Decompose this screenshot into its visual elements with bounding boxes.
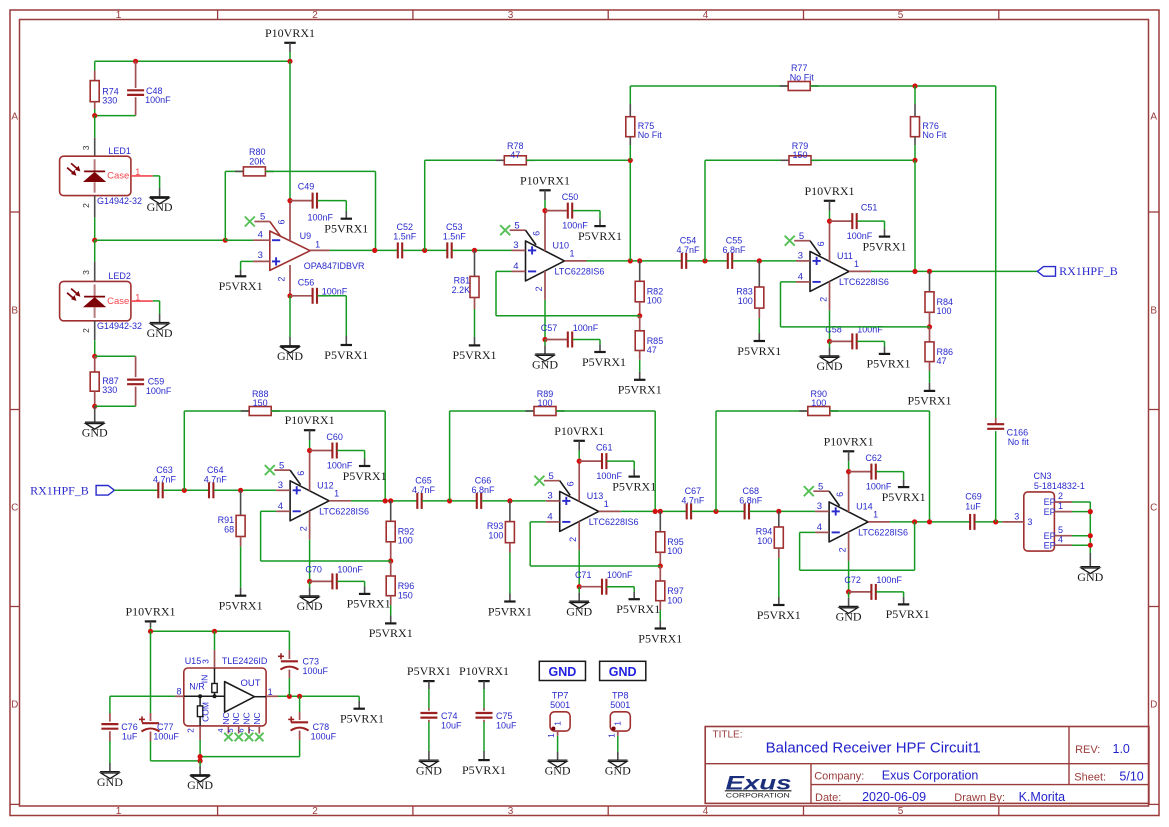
wire U14 pin2 to junction xyxy=(848,561,850,592)
svg-text:3: 3 xyxy=(547,491,552,502)
power P5VRX1 at C50 xyxy=(594,225,605,227)
svg-text:6.8nF: 6.8nF xyxy=(739,495,763,505)
svg-text:P5VRX1: P5VRX1 xyxy=(343,469,387,483)
svg-text:U9: U9 xyxy=(300,231,312,241)
net label box GND 2 xyxy=(600,661,646,680)
svg-text:2: 2 xyxy=(185,728,195,733)
wire N/R row to C76 xyxy=(110,695,175,697)
svg-text:8: 8 xyxy=(176,687,181,697)
U15 internal IN resistor xyxy=(214,668,216,684)
svg-text:150: 150 xyxy=(398,590,413,600)
svg-text:2: 2 xyxy=(276,277,286,282)
svg-text:4: 4 xyxy=(703,806,709,817)
svg-text:C166: C166 xyxy=(1007,427,1029,437)
ground GND under TP8 xyxy=(608,759,628,761)
svg-text:CORPORATION: CORPORATION xyxy=(726,792,790,799)
U15 pin3 IN lead xyxy=(214,631,216,650)
ground GND at U12 xyxy=(300,595,320,597)
capacitor C68 xyxy=(744,503,746,519)
capacitor C78 xyxy=(299,696,301,712)
power P5VRX1 at C72 xyxy=(898,603,909,605)
svg-text:3: 3 xyxy=(798,251,803,262)
svg-text:TLE2426ID: TLE2426ID xyxy=(222,656,268,666)
svg-text:C70: C70 xyxy=(305,565,322,575)
ground GND at U11 xyxy=(820,355,840,357)
svg-text:C62: C62 xyxy=(865,453,882,463)
svg-text:Company:: Company: xyxy=(814,771,864,783)
wire C78 to GND rail xyxy=(200,756,300,758)
capacitor C74 xyxy=(428,689,430,708)
power P5VRX1 under R85 xyxy=(634,379,645,381)
svg-text:2: 2 xyxy=(534,286,544,291)
svg-text:4.7nF: 4.7nF xyxy=(681,495,705,505)
svg-text:C56: C56 xyxy=(298,277,315,287)
svg-text:COM: COM xyxy=(200,702,210,722)
resistor R88 feedback xyxy=(183,411,185,490)
svg-text:GND: GND xyxy=(416,763,442,777)
svg-text:U10: U10 xyxy=(553,240,570,250)
U15 pin1 OUT lead xyxy=(266,695,278,697)
svg-text:1: 1 xyxy=(116,806,122,817)
svg-text:1uF: 1uF xyxy=(965,501,981,511)
wire U13 pin2 junction to GND xyxy=(578,587,580,593)
svg-text:P5VRX1: P5VRX1 xyxy=(347,597,391,611)
wire top power rail xyxy=(289,52,291,61)
power P5VRX1 under R96 xyxy=(385,622,396,624)
svg-text:100: 100 xyxy=(757,536,772,546)
capacitor C57 pin2 bypass xyxy=(545,339,567,341)
svg-text:3: 3 xyxy=(278,480,283,491)
wire U12 output node xyxy=(351,500,417,502)
svg-text:P5VRX1: P5VRX1 xyxy=(219,279,263,293)
svg-text:4.7nF: 4.7nF xyxy=(204,474,228,484)
wire R74-C48 bottom junction xyxy=(94,109,96,116)
power P10VRX1 at U12 xyxy=(304,429,315,431)
svg-text:7: 7 xyxy=(247,728,256,732)
resistor R75 No Fit xyxy=(629,86,631,104)
U10 pin6 lead xyxy=(544,211,546,251)
svg-text:LED1: LED1 xyxy=(108,146,131,156)
svg-text:100: 100 xyxy=(647,296,662,306)
svg-text:2: 2 xyxy=(312,10,318,21)
svg-text:P10VRX1: P10VRX1 xyxy=(824,434,874,448)
svg-text:3: 3 xyxy=(1027,517,1032,527)
resistor R93 xyxy=(509,501,511,522)
svg-text:GND: GND xyxy=(532,357,558,371)
resistor R79 xyxy=(705,159,789,161)
ground GND under C74 xyxy=(419,759,439,761)
wire C63-C64 xyxy=(163,489,209,491)
svg-text:150: 150 xyxy=(792,150,807,160)
svg-text:REV:: REV: xyxy=(1075,744,1100,756)
svg-text:P5VRX1: P5VRX1 xyxy=(407,664,451,678)
svg-text:P5VRX1: P5VRX1 xyxy=(324,222,368,236)
svg-text:3: 3 xyxy=(200,659,210,664)
svg-text:K.Morita: K.Morita xyxy=(1019,790,1066,804)
svg-text:5/10: 5/10 xyxy=(1119,769,1143,783)
net label box GND 1 xyxy=(539,661,585,680)
svg-text:100: 100 xyxy=(398,536,413,546)
U12 pin3 lead xyxy=(276,489,290,491)
resistor R97 xyxy=(659,566,661,581)
svg-text:3: 3 xyxy=(1014,511,1019,521)
capacitor C77 xyxy=(150,713,152,721)
capacitor C61 decoupling xyxy=(579,460,601,462)
svg-text:P5VRX1: P5VRX1 xyxy=(324,348,368,362)
svg-text:GND: GND xyxy=(566,605,592,619)
svg-text:100nF: 100nF xyxy=(145,95,171,105)
svg-text:1uF: 1uF xyxy=(122,731,138,741)
svg-text:3: 3 xyxy=(817,501,822,512)
wire U13 output node xyxy=(621,510,687,512)
capacitor C70 pin2 bypass xyxy=(310,580,332,582)
power P5VRX1 at U15 OUT xyxy=(354,708,365,710)
U15 pin8 lead xyxy=(175,695,184,697)
svg-text:10uF: 10uF xyxy=(496,720,517,730)
wire U9 output xyxy=(330,249,398,251)
svg-text:GND: GND xyxy=(97,775,123,789)
svg-text:A: A xyxy=(11,112,18,123)
svg-text:G14942-32: G14942-32 xyxy=(97,321,142,331)
svg-text:P5VRX1: P5VRX1 xyxy=(369,626,413,640)
svg-text:1: 1 xyxy=(854,259,859,269)
svg-text:Sheet:: Sheet: xyxy=(1074,771,1106,783)
svg-text:100: 100 xyxy=(537,398,552,408)
svg-text:GND: GND xyxy=(545,763,571,777)
svg-text:P5VRX1: P5VRX1 xyxy=(582,355,626,369)
frame column ticks top xyxy=(217,10,219,20)
title block dividers xyxy=(705,763,1149,765)
node divider mid junction R84/R86 xyxy=(927,324,932,329)
svg-text:2: 2 xyxy=(568,537,578,542)
power P5VRX1 below C75 xyxy=(478,759,489,761)
svg-text:LTC6228IS6: LTC6228IS6 xyxy=(839,277,889,287)
wire U10 pin2 junction to GND xyxy=(544,340,546,346)
wire to LED1 xyxy=(94,116,96,138)
wire C60 to P5VRX1 xyxy=(364,451,366,459)
svg-text:U12: U12 xyxy=(317,480,334,490)
U9 output pin lead xyxy=(310,249,330,251)
svg-text:C50: C50 xyxy=(562,192,579,202)
wire U11 pin2 to junction xyxy=(829,310,831,341)
power P10VRX1 at U11 xyxy=(824,200,835,202)
resistor R90 feedback xyxy=(715,411,717,511)
svg-text:100uF: 100uF xyxy=(153,731,179,741)
svg-text:2.2K: 2.2K xyxy=(452,285,471,295)
svg-text:150: 150 xyxy=(253,398,268,408)
svg-text:P10VRX1: P10VRX1 xyxy=(554,424,604,438)
U14 output lead xyxy=(868,521,890,523)
svg-text:100nF: 100nF xyxy=(337,565,363,575)
power P5VRX1 at C58 xyxy=(879,353,890,355)
wire C70 to P5VRX1 xyxy=(364,581,366,586)
resistor R92 xyxy=(390,501,392,521)
svg-text:NC: NC xyxy=(221,712,231,724)
svg-text:2: 2 xyxy=(81,203,91,208)
svg-text:G14942-32: G14942-32 xyxy=(97,196,142,206)
svg-text:P5VRX1: P5VRX1 xyxy=(862,239,906,253)
node C56 junction xyxy=(287,293,292,298)
wire LED2 pin2 down xyxy=(94,321,96,340)
svg-text:R91: R91 xyxy=(218,515,235,525)
svg-text:C71: C71 xyxy=(575,570,592,580)
svg-text:100uF: 100uF xyxy=(303,666,329,676)
U11 output lead xyxy=(849,270,871,272)
U14 pin4 lead xyxy=(815,531,829,533)
node divider mid junction R92/R96 xyxy=(388,558,393,563)
svg-text:TITLE:: TITLE: xyxy=(713,730,743,741)
svg-text:LTC6228IS6: LTC6228IS6 xyxy=(589,517,639,527)
svg-text:5001: 5001 xyxy=(610,700,630,710)
U10 pin2 lead xyxy=(544,271,546,300)
svg-text:Case: Case xyxy=(107,296,129,307)
U9 pin4 lead xyxy=(253,239,270,241)
svg-text:C57: C57 xyxy=(541,323,558,333)
svg-text:NC: NC xyxy=(231,712,241,724)
svg-text:LTC6228IS6: LTC6228IS6 xyxy=(555,266,605,276)
op-amp U11 LTC6228IS6 xyxy=(785,236,795,246)
power P10VRX1 at U15 xyxy=(145,620,156,622)
wire C77 to GND rail xyxy=(151,760,201,762)
wire input node to U9 xyxy=(95,239,226,241)
svg-text:1: 1 xyxy=(604,499,609,509)
wire LED2 case to GND xyxy=(153,300,160,302)
node R87 top junction xyxy=(92,354,97,359)
wire C65-C66 xyxy=(422,500,476,502)
svg-text:2: 2 xyxy=(81,328,91,333)
svg-text:2: 2 xyxy=(312,806,318,817)
power P5VRX1 at C60 xyxy=(359,465,370,467)
svg-text:100: 100 xyxy=(811,398,826,408)
svg-text:2: 2 xyxy=(819,297,829,302)
capacitor C69 xyxy=(969,514,971,530)
svg-text:CN3: CN3 xyxy=(1034,471,1052,481)
resistor R96 xyxy=(390,561,392,576)
wire U15 pin2 to GND xyxy=(199,761,201,766)
svg-text:4: 4 xyxy=(547,512,552,523)
resistor R80 feedback xyxy=(224,171,226,240)
U13 pin4 lead xyxy=(546,521,560,523)
U9 pin3 lead xyxy=(253,260,270,262)
svg-text:TP8: TP8 xyxy=(612,690,629,700)
svg-text:D: D xyxy=(11,700,18,711)
capacitor C64 xyxy=(208,482,210,498)
wire U9 pin3 to P5VRX1 xyxy=(241,260,254,262)
svg-text:No fit: No fit xyxy=(1008,437,1030,447)
ground GND at U14 xyxy=(839,605,859,607)
svg-text:EP: EP xyxy=(1044,540,1056,550)
wire C61 to P5VRX1 xyxy=(633,461,635,469)
node divider mid junction R82/R85 xyxy=(637,313,642,318)
power P5VRX1 under R81 xyxy=(469,344,480,346)
svg-text:P10VRX1: P10VRX1 xyxy=(520,173,570,187)
power P5VRX1 under R97 xyxy=(655,627,666,629)
svg-text:C73: C73 xyxy=(303,657,320,667)
wire U14 output node xyxy=(890,521,970,523)
svg-text:5-1814832-1: 5-1814832-1 xyxy=(1034,481,1085,491)
svg-text:NC: NC xyxy=(252,712,262,724)
wire U12 pin2 junction to GND xyxy=(309,581,311,587)
frame row ticks left xyxy=(10,211,20,213)
wire U11 pin2 junction to GND xyxy=(829,341,831,347)
resistor R76 No Fit xyxy=(914,86,916,104)
svg-text:P5VRX1: P5VRX1 xyxy=(612,479,656,493)
svg-text:3: 3 xyxy=(258,250,263,261)
svg-text:EP: EP xyxy=(1044,531,1056,541)
capacitor C66 xyxy=(476,493,478,509)
svg-text:C78: C78 xyxy=(313,722,330,732)
svg-text:P5VRX1: P5VRX1 xyxy=(578,229,622,243)
svg-text:No Fit: No Fit xyxy=(922,130,947,140)
wire C62 to P5VRX1 xyxy=(903,472,905,480)
node U15 ground junctions xyxy=(198,754,203,759)
wire C69 to CN3 xyxy=(975,521,1002,523)
resistor R85 xyxy=(639,316,641,331)
power P5VRX1 above C74 xyxy=(423,680,434,682)
svg-text:U14: U14 xyxy=(856,501,873,511)
capacitor C59 xyxy=(135,356,137,377)
svg-text:U13: U13 xyxy=(587,491,604,501)
svg-text:330: 330 xyxy=(102,385,117,395)
svg-text:GND: GND xyxy=(836,610,862,624)
U12 output lead xyxy=(329,500,351,502)
U9 pin2 lead xyxy=(289,265,291,296)
resistor R86 xyxy=(929,327,931,342)
svg-text:3: 3 xyxy=(81,270,91,275)
power P5VRX1 at C51 xyxy=(879,236,890,238)
svg-text:6: 6 xyxy=(835,492,845,497)
U10 pin3 lead xyxy=(512,249,526,251)
svg-text:5: 5 xyxy=(898,806,904,817)
capacitor C49 xyxy=(290,200,312,202)
svg-text:3: 3 xyxy=(81,145,91,150)
svg-text:P5VRX1: P5VRX1 xyxy=(219,599,263,613)
svg-text:R81: R81 xyxy=(454,275,471,285)
svg-text:1: 1 xyxy=(334,489,339,499)
U15 internal COM resistor xyxy=(197,706,202,717)
ground GND under LED1 case xyxy=(150,196,170,198)
wire R77 right vertical to C166 xyxy=(995,86,997,418)
U15 N/R node xyxy=(213,694,217,698)
svg-text:1: 1 xyxy=(116,10,122,21)
resistor R77 No Fit xyxy=(630,85,788,87)
svg-text:100: 100 xyxy=(667,595,682,605)
capacitor C63 xyxy=(157,482,159,498)
svg-text:2: 2 xyxy=(1058,491,1063,501)
svg-text:100: 100 xyxy=(667,546,682,556)
svg-text:5: 5 xyxy=(898,10,904,21)
svg-text:6: 6 xyxy=(566,481,576,486)
svg-text:4: 4 xyxy=(1058,534,1063,544)
wire C72 to P5VRX1 xyxy=(903,592,905,597)
U10 pin4 lead xyxy=(512,270,526,272)
U14 pin3 lead xyxy=(815,510,829,512)
svg-text:P5VRX1: P5VRX1 xyxy=(618,383,662,397)
capacitor C54 xyxy=(681,253,683,269)
svg-text:Date:: Date: xyxy=(815,792,841,804)
svg-text:P10VRX1: P10VRX1 xyxy=(265,26,315,40)
resistor R94 xyxy=(778,511,780,527)
svg-text:10uF: 10uF xyxy=(441,720,462,730)
power P5VRX1 at C56 xyxy=(341,344,352,346)
svg-text:1: 1 xyxy=(606,733,616,738)
svg-text:Exus Corporation: Exus Corporation xyxy=(882,769,979,783)
svg-text:GND: GND xyxy=(1077,570,1103,584)
svg-text:1: 1 xyxy=(546,733,556,738)
wire CN3 pins to GND xyxy=(1089,502,1091,553)
svg-text:B: B xyxy=(11,306,18,317)
svg-text:C60: C60 xyxy=(326,432,343,442)
U13 pin2 lead xyxy=(578,521,580,550)
svg-text:N/R: N/R xyxy=(189,682,205,692)
U13 pin6 lead xyxy=(578,461,580,501)
capacitor C55 xyxy=(727,253,729,269)
svg-text:C61: C61 xyxy=(596,443,613,453)
svg-text:C51: C51 xyxy=(861,203,878,213)
resistor R74 xyxy=(94,71,96,81)
U9 pin6 lead xyxy=(289,201,291,241)
svg-text:RX1HPF_B: RX1HPF_B xyxy=(1059,264,1118,278)
capacitor C50 decoupling xyxy=(545,210,567,212)
wire U9 pin2 to GND xyxy=(289,296,291,337)
wire U11 output node xyxy=(871,270,1037,272)
svg-text:P10VRX1: P10VRX1 xyxy=(125,604,175,618)
svg-text:47: 47 xyxy=(510,150,520,160)
capacitor C58 pin2 bypass xyxy=(830,340,852,342)
wire C67-C68 xyxy=(692,510,745,512)
svg-text:1: 1 xyxy=(873,510,878,520)
svg-text:P5VRX1: P5VRX1 xyxy=(638,631,682,645)
svg-text:5: 5 xyxy=(226,728,235,732)
svg-text:330: 330 xyxy=(102,96,117,106)
wire C77 input vertical xyxy=(150,631,152,713)
node P10VRX1 top power symbol xyxy=(284,42,295,44)
svg-text:C76: C76 xyxy=(121,722,138,732)
svg-text:P5VRX1: P5VRX1 xyxy=(866,357,910,371)
svg-text:3: 3 xyxy=(508,10,514,21)
svg-text:P5VRX1: P5VRX1 xyxy=(757,608,801,622)
U14 pin6 lead xyxy=(848,472,850,512)
wire C68 to U14 xyxy=(749,510,815,512)
power P5VRX1 at C70 xyxy=(359,593,370,595)
svg-text:3: 3 xyxy=(508,806,514,817)
resistor R95 xyxy=(659,511,661,531)
capacitor C71 pin2 bypass xyxy=(579,586,601,588)
svg-text:6: 6 xyxy=(532,231,542,236)
op-amp U14 LTC6228IS6 xyxy=(804,486,814,496)
svg-text:OPA847IDBVR: OPA847IDBVR xyxy=(304,261,365,271)
svg-text:NC: NC xyxy=(242,712,252,724)
svg-text:6: 6 xyxy=(816,241,826,246)
svg-text:GND: GND xyxy=(549,665,577,679)
node decoupling junction at U10 xyxy=(542,208,547,213)
svg-text:GND: GND xyxy=(187,778,213,792)
svg-text:U11: U11 xyxy=(837,251,853,261)
svg-text:4: 4 xyxy=(703,10,709,21)
svg-text:P5VRX1: P5VRX1 xyxy=(886,607,930,621)
svg-text:C59: C59 xyxy=(148,376,165,386)
ground GND at U10 xyxy=(535,353,555,355)
U10 output lead xyxy=(565,260,587,262)
node divider mid junction R95/R97 xyxy=(658,563,663,568)
resistor R82 xyxy=(639,261,641,281)
wire R79 left vertical xyxy=(704,160,706,261)
svg-text:P5VRX1: P5VRX1 xyxy=(907,394,951,408)
svg-text:C77: C77 xyxy=(157,722,174,732)
svg-text:4: 4 xyxy=(278,501,283,512)
capacitor C73 xyxy=(288,631,290,650)
wire to GND below R87 xyxy=(94,406,96,422)
